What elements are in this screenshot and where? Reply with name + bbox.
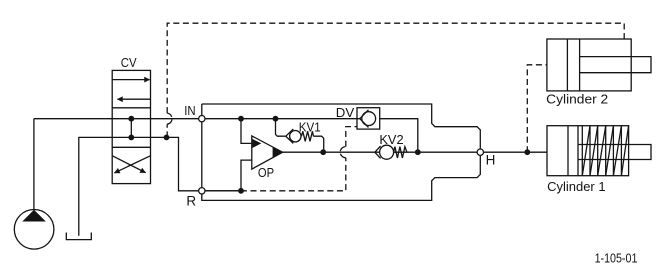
valve CV center connector — [130, 119, 132, 138]
manifold block outline — [202, 104, 481, 200]
valve CV arrow right — [112, 79, 149, 81]
wire T line to R port — [151, 137, 241, 190]
tank symbol — [66, 233, 91, 240]
wire pump pressure line P to IN — [34, 118, 360, 120]
op-amp OP output arrow — [273, 147, 283, 158]
cylinder 2 piston — [566, 39, 568, 91]
node IN — [199, 116, 205, 122]
valve CV body — [112, 70, 150, 183]
cylinder 2 body — [547, 39, 631, 91]
svg-text:1-105-01: 1-105-01 — [595, 250, 638, 265]
svg-text:R: R — [186, 193, 196, 208]
wire OP upper branch — [241, 119, 252, 144]
valve CV arrow left — [117, 98, 150, 100]
cylinder 2 rod — [580, 57, 651, 73]
check valve KV2 ball — [380, 145, 394, 159]
op-amp OP input arrow — [252, 139, 261, 148]
wire DV outlet — [380, 119, 418, 153]
pilot line dashed from CV to cylinder 2 top — [167, 23, 624, 137]
svg-text:KV2: KV2 — [379, 132, 403, 147]
node H — [477, 149, 483, 155]
pilot line dashed from H line to cylinder 2 side port — [527, 65, 547, 152]
cylinder 1 piston — [567, 126, 569, 176]
wire main output line OP to H — [283, 151, 478, 153]
wire tank line T through valve — [79, 137, 151, 235]
svg-text:DV: DV — [336, 105, 355, 120]
svg-text:KV1: KV1 — [299, 119, 321, 134]
cylinder 1 rod — [578, 145, 651, 160]
wire OP lower branch — [241, 160, 252, 191]
wire KV1 outlet — [314, 136, 324, 152]
cylinder 1 body — [547, 126, 629, 176]
valve CV crossed arrows — [114, 156, 150, 173]
valve DV seat — [360, 110, 369, 128]
op-amp OP triangle — [252, 136, 283, 169]
wire H to cylinder 1 — [484, 151, 548, 153]
node R — [199, 188, 205, 194]
check valve KV2 seat — [375, 146, 381, 158]
svg-text:OP: OP — [258, 165, 274, 180]
check valve KV1 ball — [290, 131, 301, 142]
wire internal R line — [202, 190, 241, 192]
svg-text:Cylinder 2: Cylinder 2 — [546, 92, 608, 107]
check valve KV1 seat — [286, 129, 294, 143]
pilot line dashed from R branch to DV — [241, 127, 357, 191]
check valve KV1 spring — [302, 131, 314, 141]
svg-text:IN: IN — [184, 103, 195, 118]
valve DV ball — [362, 112, 376, 126]
pump triangle — [22, 210, 46, 222]
wire pump riser — [33, 119, 35, 210]
svg-text:Cylinder 1: Cylinder 1 — [547, 179, 606, 194]
valve DV box — [357, 108, 380, 129]
cylinder 1 spring — [582, 126, 621, 176]
check valve KV2 spring — [394, 147, 407, 158]
pilot line hop arc over P line — [167, 113, 172, 124]
pump circle — [14, 210, 54, 250]
junction dots — [128, 116, 134, 122]
pilot line hop arc over main line — [340, 147, 346, 158]
svg-text:H: H — [486, 152, 496, 167]
svg-text:CV: CV — [121, 55, 137, 70]
wire KV1 branch — [276, 119, 286, 137]
